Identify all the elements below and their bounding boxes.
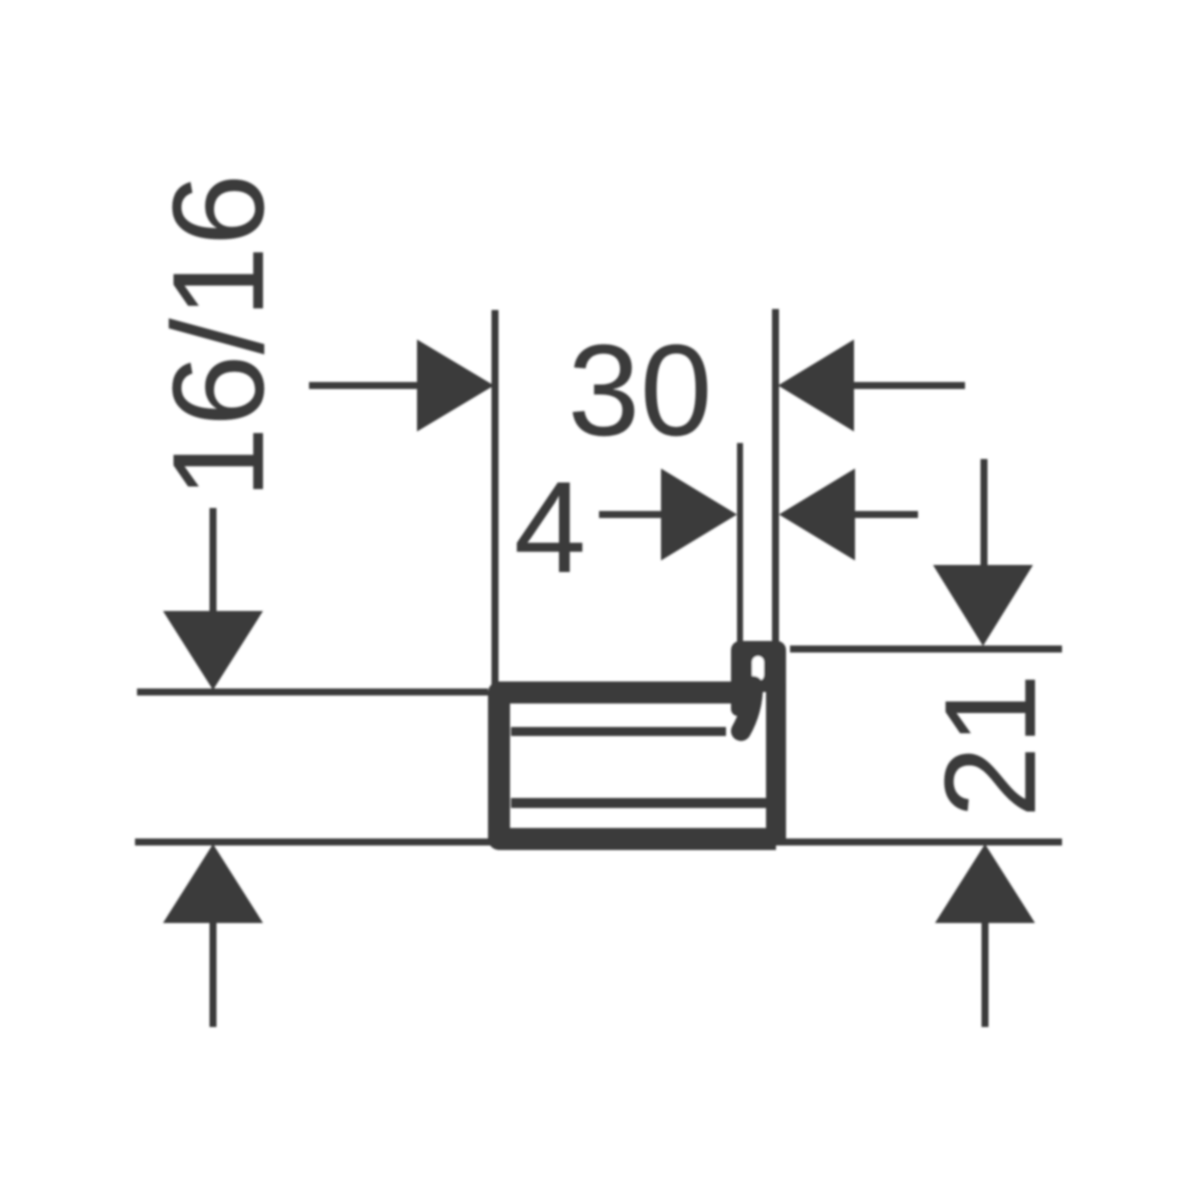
extension line right (x=775.5) <box>772 309 779 642</box>
arrowhead right (dim 30 left) <box>417 340 494 432</box>
arrowhead left (dim 30 right) <box>778 340 854 432</box>
arrowhead down (16/16) <box>163 611 263 690</box>
horizontal line right (y=648) <box>790 646 1062 653</box>
extension line left (x=495) <box>492 310 499 686</box>
arrowhead left (dim 4) <box>779 469 855 561</box>
stem up-arrow left bottom <box>210 921 217 1027</box>
dim 4 right tail <box>855 511 918 518</box>
profile hook slot (white) <box>752 656 764 681</box>
arrowhead up bottom-left <box>163 844 263 923</box>
dim 4 left tail <box>599 511 663 518</box>
profile cross-section <box>499 641 786 839</box>
svg-text:4: 4 <box>514 454 586 600</box>
svg-text:30: 30 <box>568 317 713 463</box>
stem down-arrow right <box>981 459 988 568</box>
profile inner line 2 <box>511 798 766 808</box>
svg-text:21: 21 <box>917 673 1063 818</box>
profile right wall <box>766 655 786 839</box>
profile inner curl <box>741 686 753 731</box>
profile hook junction filler <box>731 682 754 716</box>
dim 30 left tail <box>309 382 419 389</box>
horizontal line left (y=692) <box>137 689 488 696</box>
svg-text:16/16: 16/16 <box>145 174 291 499</box>
arrowhead up bottom-right <box>935 844 1035 923</box>
profile inner line 1 <box>511 727 726 736</box>
stem down-arrow left <box>210 508 217 614</box>
arrowhead right (dim 4) <box>661 469 737 561</box>
long horizontal line bottom (y=842) <box>135 839 1062 846</box>
arrowhead down (21 top) <box>933 565 1033 646</box>
dim 30 right tail <box>854 382 965 389</box>
stem up-arrow right bottom <box>982 921 989 1027</box>
profile top wall + left wall + bottom wall <box>499 693 776 840</box>
profile hook head <box>731 641 786 692</box>
extension line small (x=740) <box>737 443 743 642</box>
